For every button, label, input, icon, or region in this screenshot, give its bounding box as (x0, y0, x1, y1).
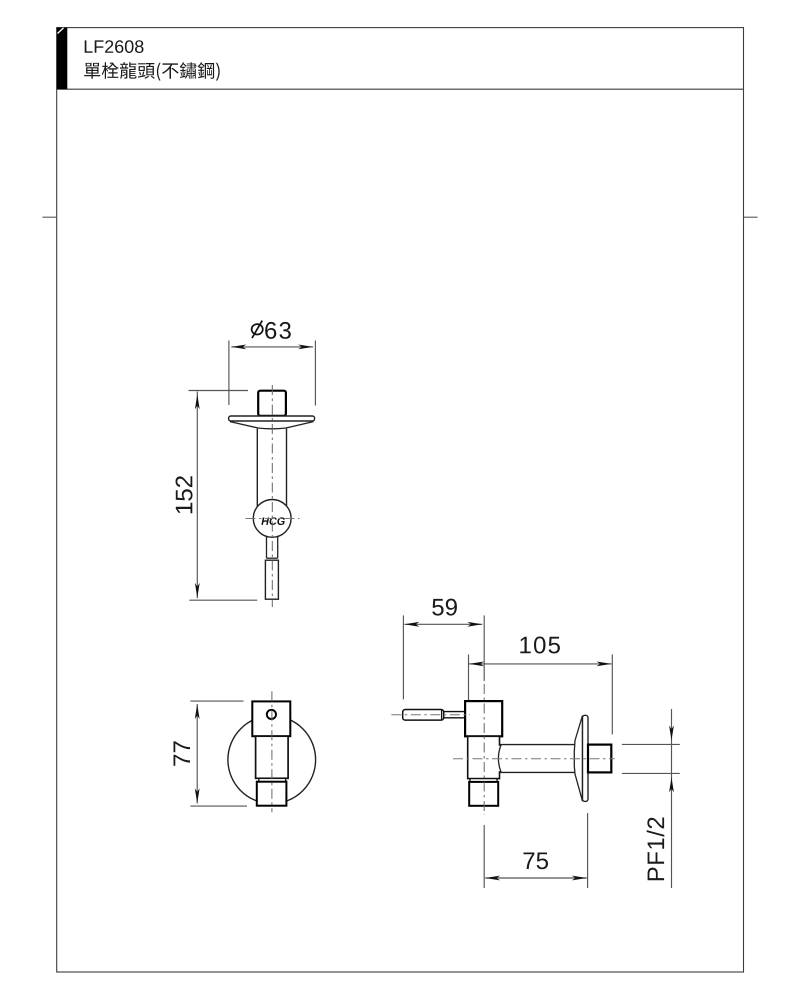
dim 77 line (196, 704, 198, 804)
valve lower body V3 (468, 736, 500, 778)
dim 59 line (404, 623, 482, 625)
flange cone side V3 (574, 716, 582, 802)
dim 75 label (524, 853, 549, 870)
dim 105 line (469, 663, 612, 665)
flange plate V1 (229, 416, 315, 421)
flange plate side V3 (583, 715, 589, 801)
HCG logo V1 (261, 517, 285, 525)
aerator V2 (257, 782, 287, 806)
mid body V2 (256, 736, 289, 778)
dim 105 label (520, 637, 560, 654)
wall nipple V3 (588, 745, 611, 773)
dim 75 extension line left (483, 825, 485, 888)
body column V1 (257, 429, 286, 507)
dim PF1/2 extension lines (622, 744, 680, 773)
centerline horizontal V1 (246, 518, 300, 520)
dim 75 arrows (485, 876, 587, 881)
dim phi63 label 63 (265, 322, 291, 339)
dim 152 arrows (195, 394, 200, 598)
sheet centering tick right (744, 216, 758, 218)
title text LF2608 (85, 40, 144, 53)
centerline vertical V2 (271, 691, 273, 812)
dim 77 arrows (195, 704, 200, 803)
title text 單栓龍頭(不鏽鋼) (84, 62, 220, 81)
dim 152 line (196, 392, 198, 599)
aerator tip V1 (265, 560, 278, 599)
handle grip V3 (403, 710, 444, 721)
title block black bar (57, 28, 68, 90)
dim 75 extension line right (587, 813, 589, 888)
pipe V3 (500, 745, 583, 773)
flange cone V1 (230, 422, 313, 429)
handle centerline V3 (391, 714, 470, 716)
dim 152 extension lines (189, 391, 258, 601)
dim PF1/2 line (671, 709, 673, 888)
collar V3 (470, 779, 497, 782)
handle stem V3 (444, 712, 465, 718)
handle joint line V3 (441, 710, 443, 721)
wall flange circle V2 (228, 716, 316, 804)
aerator tip V3 (469, 782, 498, 806)
sheet centering tick left (43, 216, 57, 218)
dim PF1/2 label (647, 818, 665, 881)
upper body V2 (252, 701, 290, 736)
screw hole V2 (267, 710, 276, 719)
dim 59 label (432, 599, 457, 616)
dim 59 arrows (404, 622, 482, 627)
dim 77 extension lines (190, 701, 247, 806)
dim 105 arrows (469, 662, 612, 667)
dim 59 extension line left (402, 615, 404, 699)
valve body V3 (465, 701, 502, 736)
pipe-body fillet arc V3 (498, 744, 501, 772)
valve centerline V3 (483, 684, 485, 815)
dim phi63 arrows (231, 345, 313, 350)
logo ball V1 (253, 500, 291, 538)
collar V2 (259, 778, 286, 781)
dim 59 extension line right (483, 615, 485, 681)
centerline vertical V1 (271, 385, 273, 607)
dim 105 extension line right (611, 654, 613, 734)
dim phi63 symbol (252, 321, 263, 339)
dim phi63 line (231, 346, 313, 348)
dim 152 label (176, 476, 193, 513)
dim 75 line (485, 877, 587, 879)
stem V1 (267, 537, 278, 559)
dim PF1/2 arrows (669, 725, 674, 792)
wall stub V1 (258, 391, 286, 416)
pipe centerline V3 (453, 758, 615, 760)
dim 77 label (174, 741, 191, 765)
dim 105 extension line left (468, 654, 470, 700)
dim phi63 extension lines (229, 341, 316, 406)
